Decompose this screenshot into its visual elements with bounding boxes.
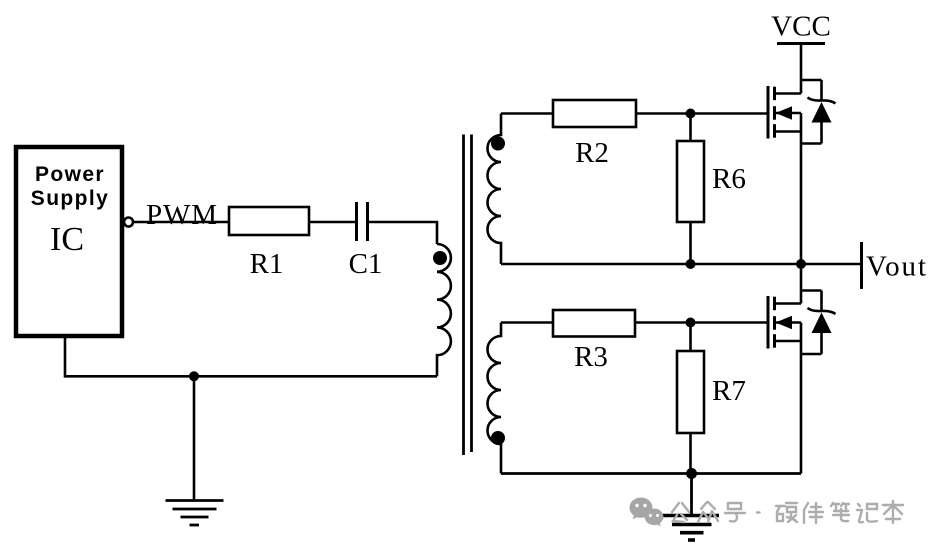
junction R6 bottom on Vout rail <box>686 259 696 269</box>
wire top secondary bottom to Vout rail <box>501 263 862 266</box>
ground symbol left <box>166 501 224 526</box>
body diode D1 of Q1 <box>808 80 836 144</box>
watermark text <box>672 501 903 523</box>
svg-text:Supply: Supply <box>31 187 109 210</box>
junction R2/R6/gate <box>686 109 696 119</box>
transformer T1 secondary winding bottom <box>488 323 502 474</box>
transformer T1 core <box>464 135 472 456</box>
wire R6 bottom to Vout rail <box>689 222 692 264</box>
mosfet Q1 <box>768 80 822 264</box>
body diode D2 of Q2 <box>808 291 836 355</box>
wire junction to R6 top <box>689 114 692 142</box>
transformer T1 secondary winding top <box>488 114 502 265</box>
junction on left ground rail <box>189 371 199 381</box>
capacitor C1 <box>349 202 383 280</box>
resistor R3 <box>553 310 635 373</box>
svg-text:Power: Power <box>35 163 105 186</box>
svg-text:C1: C1 <box>349 248 383 280</box>
svg-text:R3: R3 <box>574 341 608 373</box>
secondary top phase dot <box>491 137 505 151</box>
wire secondary top to R2 <box>501 112 553 115</box>
junction Q1 source / Q2 drain on Vout rail <box>796 259 806 269</box>
wire junction down to ground right <box>690 474 693 516</box>
resistor R7 <box>677 351 746 433</box>
wire junction down to ground <box>193 376 196 500</box>
svg-text:Vout: Vout <box>866 251 926 283</box>
secondary bottom phase dot <box>491 431 505 445</box>
wire C1 to transformer primary <box>369 222 437 244</box>
bottom ground rail wire <box>501 472 801 475</box>
svg-text:R7: R7 <box>712 375 746 407</box>
svg-text:R6: R6 <box>712 163 746 195</box>
svg-text:VCC: VCC <box>771 11 831 43</box>
svg-text:R1: R1 <box>250 248 284 280</box>
junction R3/R7/gate <box>686 318 696 328</box>
resistor R6 <box>677 141 746 222</box>
mosfet Q2 <box>768 264 822 474</box>
power symbol VCC <box>771 11 831 44</box>
resistor R1 <box>229 207 309 280</box>
transformer T1 primary winding <box>437 244 451 376</box>
resistor R2 <box>553 100 636 169</box>
svg-text:IC: IC <box>50 221 84 258</box>
ground symbol right <box>662 516 720 541</box>
wire R3 to gate of Q2 <box>635 321 768 324</box>
svg-text:PWM: PWM <box>146 199 217 231</box>
PWM output pin open circle <box>124 218 133 227</box>
watermark wechat icon <box>630 498 664 527</box>
wire R1 to C1 <box>309 221 355 224</box>
wire R2 to gate of Q1 <box>636 112 768 115</box>
wire PWM pin to R1 <box>133 221 229 224</box>
wire secondary bottom to R3 <box>501 321 553 324</box>
power supply IC box U1 <box>16 147 122 336</box>
wire junction to R7 top <box>689 323 692 352</box>
wire R7 bottom to ground rail <box>689 433 692 474</box>
wire IC bottom to left ground rail <box>65 338 437 376</box>
Vout terminal bar <box>860 242 863 289</box>
svg-text:R2: R2 <box>575 137 609 169</box>
primary phase dot <box>433 251 447 265</box>
junction R7 bottom on ground rail <box>686 468 697 479</box>
wire VCC to Q1 drain <box>800 44 803 94</box>
